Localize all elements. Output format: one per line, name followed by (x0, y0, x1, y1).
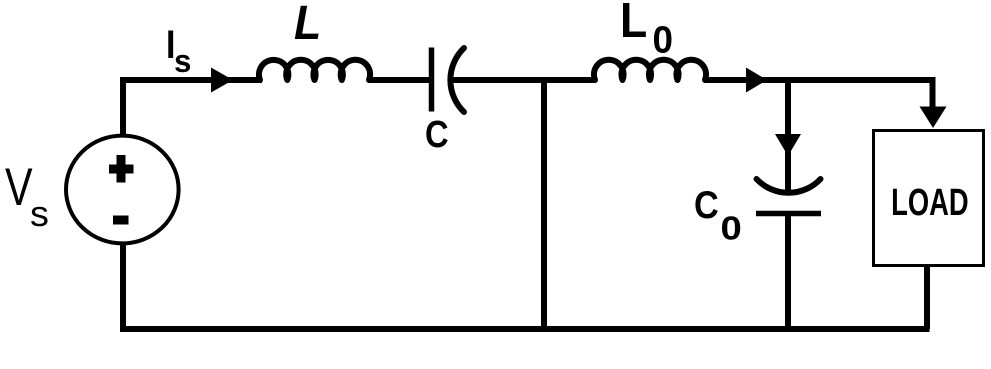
capacitor Co bottom plate (756, 211, 821, 217)
inductor L (259, 60, 370, 80)
label Co (694, 183, 742, 247)
capacitor C right curved plate (450, 48, 464, 112)
svg-text:C: C (425, 113, 449, 156)
LOAD box (874, 131, 984, 266)
arrow: output current direction (746, 68, 767, 93)
svg-text:s: s (30, 194, 49, 234)
arrow: into Co (775, 134, 801, 156)
svg-text:L: L (620, 0, 647, 47)
wire: L to capacitor C (369, 77, 429, 83)
label Lo (620, 0, 673, 61)
plus sign (109, 155, 134, 183)
svg-text:s: s (174, 43, 191, 79)
arrow: current Is direction (211, 68, 233, 93)
arrow: into LOAD (920, 107, 947, 129)
svg-text:0: 0 (653, 18, 673, 61)
wire: C to node and on to Lo (451, 77, 596, 83)
svg-text:V: V (5, 158, 33, 217)
capacitor C left plate (429, 48, 435, 112)
svg-text:0: 0 (721, 210, 742, 247)
inductor Lo (594, 60, 706, 80)
svg-text:L: L (294, 0, 321, 49)
wire: middle vertical junction (541, 80, 547, 329)
svg-text:LOAD: LOAD (891, 182, 969, 224)
wire: Lo to right corner, down to LOAD (704, 80, 933, 115)
wire: Co to bottom rail (785, 216, 791, 329)
wire: LOAD to bottom rail (924, 266, 930, 329)
wire: Co branch vertical from top rail (785, 80, 791, 192)
label Vs (5, 158, 49, 234)
voltage source Vs circle (66, 136, 179, 244)
wire: bottom rail (123, 244, 930, 329)
capacitor Co top curved plate (757, 179, 821, 193)
label Is (166, 21, 191, 79)
svg-text:C: C (694, 183, 719, 227)
wire: left vertical from source to top rail (123, 80, 262, 134)
minus sign (113, 216, 129, 225)
